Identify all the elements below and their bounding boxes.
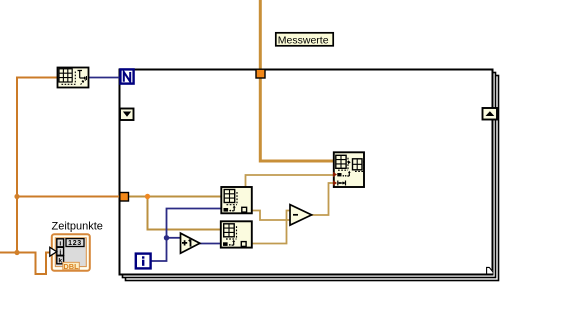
svg-text:i: i (59, 240, 61, 247)
svg-text:Zeitpunkte: Zeitpunkte (52, 221, 103, 233)
svg-text:123: 123 (68, 240, 82, 247)
svg-text:k: k (58, 257, 62, 264)
svg-text:DBL: DBL (63, 262, 79, 271)
svg-text:j: j (58, 249, 61, 256)
svg-text:Messwerte: Messwerte (278, 34, 329, 46)
